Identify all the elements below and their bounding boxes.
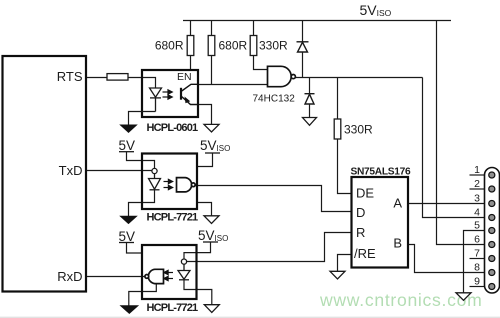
wire NAND output net xyxy=(295,77,422,79)
pin numbers xyxy=(474,164,480,288)
LED inside opto1 xyxy=(150,88,162,112)
MCU box xyxy=(3,56,87,292)
svg-text:680R: 680R xyxy=(155,39,184,53)
svg-text:1: 1 xyxy=(474,164,480,176)
svg-text:8: 8 xyxy=(474,262,480,274)
wire opto1 cathode out xyxy=(129,112,156,126)
resistor R1 680R xyxy=(187,36,194,56)
wire A to DB9 pin3 xyxy=(408,203,485,205)
coupling arrows opto1 xyxy=(163,90,173,99)
svg-text:/RE: /RE xyxy=(354,246,376,261)
wire opto2 output to D pin xyxy=(195,186,351,212)
wire stub DB9 pin9 xyxy=(470,286,485,288)
wire diode D1 bottom xyxy=(302,52,304,78)
pin 8 xyxy=(489,269,495,275)
svg-text:4: 4 xyxy=(474,207,480,219)
wire net down to DB9 pin4 xyxy=(423,78,485,218)
wire resistor R1 bottom to EN xyxy=(190,56,192,71)
wire resistor R1 top xyxy=(190,21,192,36)
wire DB9 pin5 to ground xyxy=(464,231,485,293)
svg-text:5: 5 xyxy=(474,220,480,232)
svg-text:330R: 330R xyxy=(259,39,288,53)
resistor R3 330R xyxy=(250,36,257,56)
5V_ISO power rail xyxy=(183,20,451,22)
ground arrow mcu-side opto2 xyxy=(121,216,137,223)
ground iso /RE xyxy=(330,271,345,279)
svg-text:EN: EN xyxy=(177,71,192,83)
ground iso opto3 xyxy=(204,305,219,313)
diode D1 xyxy=(297,42,309,52)
svg-text:HCPL-0601: HCPL-0601 xyxy=(147,122,199,134)
wire resistor R3 bottom to NAND input xyxy=(254,56,268,70)
resistor RTS series xyxy=(107,74,128,81)
wire resistor R2 bottom xyxy=(211,56,213,85)
connector pins xyxy=(489,172,495,290)
svg-text:74HC132: 74HC132 xyxy=(253,94,296,105)
wire stub DB9 pin1 xyxy=(470,174,485,176)
op-amp U4 HCPL-7721 optocoupler box (RxD) xyxy=(142,245,197,299)
pin 1 xyxy=(489,172,495,178)
svg-text:A: A xyxy=(393,196,402,211)
pin circle opto3 xyxy=(181,259,186,264)
pin circle opto2 xyxy=(152,168,157,173)
ground arrow mcu-side opto3 xyxy=(121,306,138,314)
wire diode D2 top xyxy=(309,78,311,94)
ground iso opto2 xyxy=(204,216,219,224)
wire RTS from MCU to resistor xyxy=(86,77,107,79)
op-amp U1 HCPL-0601 optocoupler box xyxy=(142,70,198,117)
wire resistor R4 to DE xyxy=(338,139,352,194)
wire opto1 emitter to ground xyxy=(198,105,212,125)
transistor Q1 phototransistor xyxy=(181,84,198,104)
coupling arrows opto3 xyxy=(164,270,173,280)
op-amp U3 HCPL-7721 optocoupler box (TxD) xyxy=(142,154,197,210)
svg-text:D: D xyxy=(356,205,365,220)
pin 9 xyxy=(489,283,495,289)
wire resistor R3 top xyxy=(253,21,255,36)
wire diode D2 to ground xyxy=(309,104,311,118)
wire resistor to opto1 LED xyxy=(128,78,156,89)
wire diode D1 top xyxy=(302,21,304,42)
svg-text:5V: 5V xyxy=(119,229,136,244)
gate output buffer opto2 xyxy=(177,178,196,192)
svg-text:3: 3 xyxy=(474,193,480,205)
wire net to resistor R4 xyxy=(337,78,339,120)
pin 7 xyxy=(489,255,495,261)
pin 3 xyxy=(489,200,495,206)
svg-text:6: 6 xyxy=(474,234,480,246)
svg-text:DE: DE xyxy=(356,186,374,201)
wire B to DB9 pin8 xyxy=(408,245,485,273)
resistor R4 330R xyxy=(334,119,341,139)
wire stub DB9 pin7 xyxy=(470,258,485,260)
gate input buffer opto3 xyxy=(145,269,164,283)
wire resistor R2 top xyxy=(211,21,213,36)
svg-text:2: 2 xyxy=(474,178,480,190)
wire RxD from MCU to opto3 xyxy=(86,276,145,278)
wire stub DB9 pin2 xyxy=(470,188,485,190)
ground arrow mcu-side opto1 xyxy=(121,125,137,132)
svg-text:7: 7 xyxy=(474,248,480,260)
LED inside opto3 xyxy=(178,264,190,280)
ground iso opto1 emitter xyxy=(204,124,219,132)
wire /RE to ground xyxy=(338,255,352,272)
wire 5Viso stub opto3 to LED xyxy=(184,242,211,259)
wire opto2 iso ground stub xyxy=(197,203,212,216)
wire 5V stub opto3 xyxy=(127,243,143,254)
pin 5 xyxy=(489,227,495,233)
wire opto3 gate ground xyxy=(129,284,157,306)
svg-text:SN75ALS176: SN75ALS176 xyxy=(351,167,411,178)
svg-text:RxD: RxD xyxy=(57,269,82,284)
bottom border line xyxy=(0,316,500,318)
ground iso under D2 xyxy=(303,118,317,126)
svg-text:TxD: TxD xyxy=(59,163,83,178)
svg-text:B: B xyxy=(393,236,402,251)
pin 6 xyxy=(489,241,495,247)
diode D2 xyxy=(305,94,315,104)
wire opto3 LED cathode to iso ground xyxy=(184,280,212,305)
resistor R2 680R xyxy=(208,36,215,56)
wire 5Viso rail down to DB9 pin6 xyxy=(437,21,485,245)
svg-text:330R: 330R xyxy=(344,123,373,137)
connector DB9 body xyxy=(485,168,500,294)
svg-text:HCPL-7721: HCPL-7721 xyxy=(147,212,199,224)
wire TxD from MCU to opto2 xyxy=(86,170,152,172)
svg-text:5V: 5V xyxy=(119,138,136,153)
svg-text:9: 9 xyxy=(474,276,480,288)
svg-text:680R: 680R xyxy=(219,39,248,53)
wire opto1 collector to NAND input B xyxy=(198,84,268,86)
ground iso DB9 pin5 xyxy=(456,293,471,301)
gate 74HC132 NAND U2 xyxy=(268,66,296,86)
wire opto3 LED anode to R pin xyxy=(187,233,352,262)
svg-text:HCPL-7721: HCPL-7721 xyxy=(147,302,199,314)
svg-text:R: R xyxy=(356,225,365,240)
pin 4 xyxy=(489,214,495,220)
wire opto2 LED cathode to ground xyxy=(129,190,155,217)
pin 2 xyxy=(489,186,495,192)
coupling arrows opto2 xyxy=(164,179,173,189)
svg-text:RTS: RTS xyxy=(57,69,83,84)
LED inside opto2 xyxy=(149,174,161,190)
wire 5V stub opto2 xyxy=(127,152,155,169)
wire 5Viso stub opto2 xyxy=(197,153,213,167)
